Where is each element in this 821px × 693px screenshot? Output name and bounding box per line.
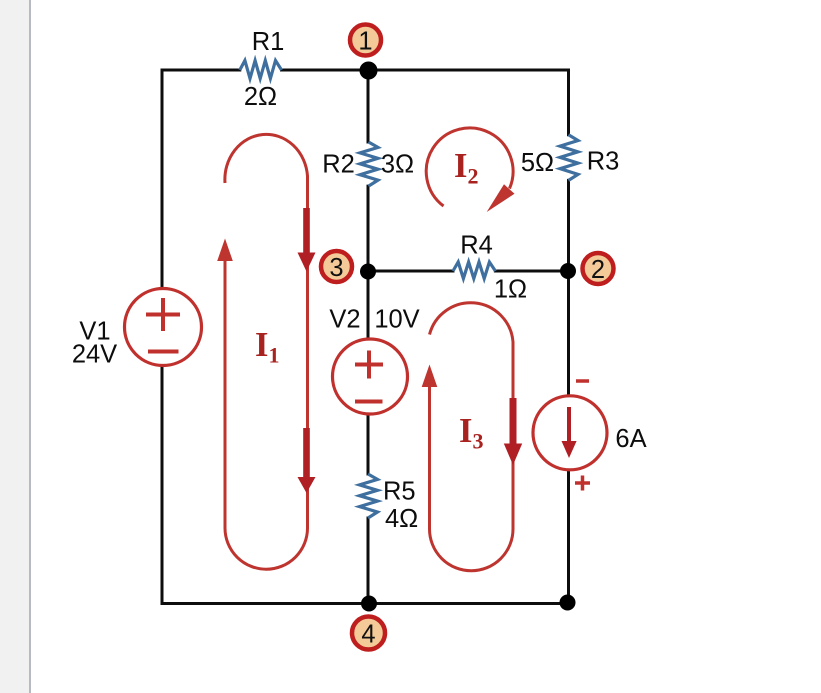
- svg-text:10V: 10V: [374, 306, 419, 334]
- svg-text:24V: 24V: [72, 341, 117, 369]
- svg-text:3: 3: [329, 254, 343, 282]
- svg-text:3Ω: 3Ω: [381, 151, 414, 179]
- svg-text:R4: R4: [460, 232, 493, 260]
- svg-text:2Ω: 2Ω: [244, 83, 277, 111]
- svg-text:1: 1: [358, 28, 372, 56]
- svg-text:R5: R5: [383, 478, 416, 506]
- svg-text:5Ω: 5Ω: [521, 149, 554, 177]
- svg-text:4: 4: [361, 621, 375, 649]
- svg-text:V2: V2: [329, 306, 360, 334]
- svg-text:4Ω: 4Ω: [385, 505, 418, 533]
- svg-text:R3: R3: [587, 148, 620, 176]
- svg-text:6A: 6A: [615, 425, 646, 453]
- svg-text:R2: R2: [322, 151, 355, 179]
- svg-text:2: 2: [591, 256, 605, 284]
- svg-text:1Ω: 1Ω: [494, 276, 527, 304]
- svg-text:R1: R1: [252, 28, 285, 56]
